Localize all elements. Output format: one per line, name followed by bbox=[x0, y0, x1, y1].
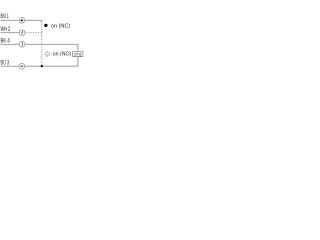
svg-text:BK 4: BK 4 bbox=[1, 39, 11, 45]
svg-text:WH 2: WH 2 bbox=[1, 27, 11, 33]
svg-text:BN 1: BN 1 bbox=[1, 14, 10, 20]
svg-text:on (NC): on (NC) bbox=[51, 23, 71, 29]
svg-text:prg: prg bbox=[74, 51, 82, 56]
svg-text:on (NO): on (NO) bbox=[53, 52, 72, 58]
